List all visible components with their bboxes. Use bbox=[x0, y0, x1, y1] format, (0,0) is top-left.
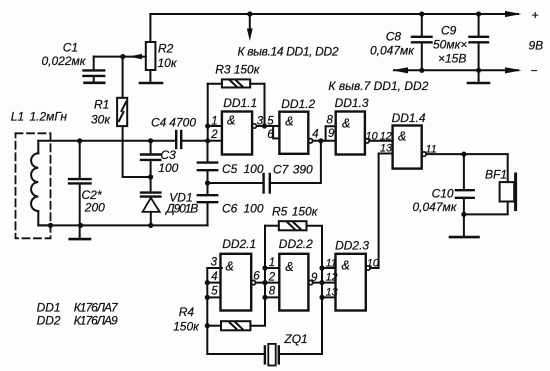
svg-text:9: 9 bbox=[311, 272, 318, 284]
node C3 tap bbox=[148, 138, 153, 143]
svg-text:2: 2 bbox=[210, 129, 218, 141]
svg-text:DD2.2: DD2.2 bbox=[279, 237, 313, 251]
capacitor C4 bbox=[175, 131, 177, 148]
svg-text:4: 4 bbox=[312, 129, 318, 141]
svg-text:&: & bbox=[398, 130, 406, 144]
resistor R1 bbox=[122, 57, 124, 98]
svg-text:100: 100 bbox=[244, 162, 264, 176]
wire DD1.1 input bus bbox=[207, 84, 209, 141]
svg-text:200: 200 bbox=[84, 201, 105, 215]
svg-text:R3: R3 bbox=[215, 63, 231, 77]
wire to C7 bbox=[208, 182, 264, 184]
capacitor C5 bbox=[207, 141, 209, 162]
svg-text:3: 3 bbox=[211, 256, 218, 268]
wire DD1.2 pin6 jog bbox=[273, 126, 279, 138]
wire top +9V rail bbox=[150, 13, 518, 15]
svg-text:C10: C10 bbox=[432, 187, 454, 201]
svg-text:−: − bbox=[531, 64, 538, 78]
node minus rail right arrow bbox=[505, 67, 522, 73]
wire DD1.3 pin8 jog bbox=[326, 126, 336, 141]
svg-text:2: 2 bbox=[268, 272, 276, 284]
svg-text:100: 100 bbox=[158, 161, 178, 175]
wire R2 wiper bbox=[123, 56, 146, 58]
svg-text:3: 3 bbox=[257, 116, 264, 128]
wire DD1.3 out to DD1.4 pin12 bbox=[369, 140, 392, 142]
svg-text:&: & bbox=[227, 114, 235, 128]
capacitor C10 bbox=[463, 154, 465, 190]
ground C1 bbox=[85, 82, 105, 85]
svg-text:×15В: ×15В bbox=[438, 52, 466, 66]
svg-text:9: 9 bbox=[328, 128, 335, 140]
svg-text:10: 10 bbox=[366, 131, 378, 143]
wire DD2.1 input bus bbox=[207, 268, 265, 354]
svg-text:10к: 10к bbox=[158, 56, 178, 70]
svg-text:Д901В: Д901В bbox=[164, 202, 198, 216]
wire ground rail bbox=[38, 224, 207, 226]
svg-text:&: & bbox=[226, 260, 234, 274]
resistor R2 bbox=[149, 14, 151, 42]
svg-text:C7: C7 bbox=[273, 163, 290, 177]
svg-text:L1: L1 bbox=[11, 110, 24, 124]
crystal ZQ1 bbox=[264, 346, 266, 363]
varicap VD1 bbox=[150, 177, 152, 192]
svg-text:0,047мк: 0,047мк bbox=[413, 200, 458, 214]
wire pin12 bbox=[322, 282, 336, 284]
wire DD2.2 input bus bbox=[264, 226, 266, 298]
wire minus rail bbox=[394, 69, 518, 71]
wire R1 to varicap node bbox=[123, 126, 151, 177]
svg-text:BF1: BF1 bbox=[485, 168, 507, 182]
svg-text:C5: C5 bbox=[222, 162, 238, 176]
svg-text:1.2мГн: 1.2мГн bbox=[30, 110, 68, 124]
op-amp DD1.1 bbox=[222, 112, 252, 155]
svg-text:10: 10 bbox=[367, 257, 379, 269]
wire pin13 bbox=[322, 296, 336, 298]
capacitor C1 bbox=[94, 56, 123, 58]
svg-text:DD2: DD2 bbox=[37, 314, 61, 328]
svg-text:4: 4 bbox=[211, 271, 217, 283]
ground C10 bbox=[450, 236, 479, 239]
svg-text:К выв.14 DD1, DD2: К выв.14 DD1, DD2 bbox=[238, 45, 339, 59]
node C5/C6/C7 bbox=[205, 180, 210, 185]
svg-text:0,022мк: 0,022мк bbox=[42, 54, 87, 68]
svg-text:R4: R4 bbox=[179, 305, 195, 319]
svg-text:150к: 150к bbox=[173, 320, 200, 334]
svg-text:6: 6 bbox=[267, 129, 274, 141]
svg-text:&: & bbox=[342, 259, 350, 273]
ground C9 bbox=[478, 70, 480, 82]
svg-text:100: 100 bbox=[244, 202, 264, 216]
wire DD1.1 out bbox=[257, 125, 280, 127]
capacitor C9 bbox=[478, 14, 480, 36]
op-amp DD2.1 bbox=[221, 254, 252, 311]
svg-text:К176ЛА9: К176ЛА9 bbox=[74, 314, 118, 328]
svg-text:12: 12 bbox=[326, 271, 338, 283]
svg-text:13: 13 bbox=[380, 142, 392, 154]
svg-text:R2: R2 bbox=[158, 42, 174, 56]
wire DD2.3 out to DD1.4 pin13 bbox=[370, 154, 392, 269]
svg-text:150к: 150к bbox=[234, 63, 261, 77]
capacitor C8 bbox=[421, 14, 423, 36]
svg-text:4700: 4700 bbox=[169, 116, 196, 130]
wire pin1 bbox=[265, 267, 279, 269]
inductor L1 bbox=[37, 141, 39, 154]
svg-text:DD1.1: DD1.1 bbox=[223, 96, 257, 110]
wire pin4 bbox=[207, 282, 220, 284]
svg-text:DD1.4: DD1.4 bbox=[392, 111, 426, 125]
capacitor C6 bbox=[207, 183, 209, 195]
svg-text:C3: C3 bbox=[161, 148, 177, 162]
svg-text:DD1.3: DD1.3 bbox=[335, 96, 369, 110]
svg-text:8: 8 bbox=[327, 115, 334, 127]
op-amp DD1.3 bbox=[336, 112, 365, 155]
wire DD2.2 out bbox=[313, 282, 322, 284]
svg-text:5: 5 bbox=[267, 116, 274, 128]
node minus rail left arrow bbox=[392, 67, 408, 73]
wire C7 branch bbox=[270, 141, 321, 183]
op-amp DD1.4 bbox=[393, 126, 422, 169]
svg-text:К176ЛА7: К176ЛА7 bbox=[74, 301, 119, 315]
svg-text:+: + bbox=[532, 8, 539, 22]
svg-text:DD2.3: DD2.3 bbox=[335, 239, 369, 253]
node K vyv.14 arrow bbox=[249, 14, 251, 32]
op-amp DD2.2 bbox=[279, 254, 308, 311]
svg-text:DD2.1: DD2.1 bbox=[222, 237, 256, 251]
resistor R5 bbox=[265, 225, 279, 227]
svg-text:12: 12 bbox=[380, 131, 392, 143]
svg-text:9В: 9В bbox=[529, 39, 544, 53]
op-amp DD2.3 bbox=[336, 254, 366, 311]
svg-text:1: 1 bbox=[269, 257, 275, 269]
wire DD2.1 out bbox=[256, 282, 280, 284]
svg-text:R5: R5 bbox=[272, 205, 288, 219]
svg-text:13: 13 bbox=[326, 287, 338, 299]
svg-text:390: 390 bbox=[293, 163, 313, 177]
svg-text:К выв.7 DD1, DD2: К выв.7 DD1, DD2 bbox=[328, 79, 428, 93]
op-amp DD1.2 bbox=[279, 112, 308, 154]
node top rail right arrow + bbox=[505, 11, 522, 17]
svg-text:8: 8 bbox=[269, 286, 276, 298]
svg-text:30к: 30к bbox=[91, 113, 111, 127]
capacitor C2 bbox=[79, 141, 81, 179]
wire pin8 bbox=[265, 296, 279, 298]
wire pin1 bbox=[208, 125, 222, 127]
wire pin11 bbox=[322, 267, 336, 269]
svg-text:DD1.2: DD1.2 bbox=[281, 97, 315, 111]
resistor R3 bbox=[208, 83, 222, 85]
wire LC tank top bbox=[38, 140, 176, 142]
wire DD1.4 out bbox=[426, 153, 508, 155]
ground C2 bbox=[70, 238, 90, 241]
buzzer BF1 bbox=[507, 154, 509, 182]
svg-text:50мк×: 50мк× bbox=[433, 38, 467, 52]
svg-text:&: & bbox=[285, 115, 293, 129]
svg-text:C8: C8 bbox=[386, 30, 402, 44]
wire DD1.2 out bbox=[313, 140, 336, 142]
svg-text:6: 6 bbox=[253, 271, 260, 283]
svg-text:11: 11 bbox=[326, 257, 337, 269]
capacitor C7 bbox=[262, 174, 264, 193]
capacitor C3 bbox=[150, 141, 152, 154]
resistor R4 bbox=[207, 325, 221, 327]
svg-text:0,047мк: 0,047мк bbox=[370, 44, 415, 58]
svg-text:&: & bbox=[342, 117, 350, 131]
svg-text:C6: C6 bbox=[222, 202, 238, 216]
svg-text:150к: 150к bbox=[292, 205, 319, 219]
svg-text:C1: C1 bbox=[63, 41, 78, 55]
svg-text:&: & bbox=[285, 260, 293, 274]
svg-text:ZQ1: ZQ1 bbox=[283, 332, 307, 346]
svg-text:DD1: DD1 bbox=[37, 301, 61, 315]
wire pin5 bbox=[207, 296, 220, 298]
svg-text:C4: C4 bbox=[151, 116, 167, 130]
svg-text:1: 1 bbox=[211, 116, 217, 128]
node varicap top bbox=[148, 174, 153, 179]
svg-text:R1: R1 bbox=[94, 98, 109, 112]
L1 shield dashed box bbox=[16, 133, 51, 238]
wire pin2 bbox=[208, 140, 222, 142]
svg-text:5: 5 bbox=[211, 286, 218, 298]
svg-text:C9: C9 bbox=[441, 24, 457, 38]
svg-text:11: 11 bbox=[426, 143, 437, 155]
node C2 tap bbox=[77, 138, 82, 143]
